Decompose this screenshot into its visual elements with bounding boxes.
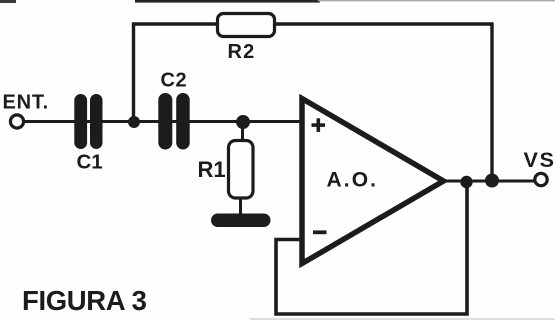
svg-text:R2: R2	[228, 41, 256, 63]
svg-text:A.O.: A.O.	[327, 169, 379, 192]
svg-text:FIGURA 3: FIGURA 3	[22, 285, 147, 316]
svg-text:ENT.: ENT.	[3, 92, 50, 114]
svg-text:C1: C1	[77, 151, 103, 174]
svg-text:C2: C2	[161, 70, 188, 92]
svg-text:VS: VS	[524, 148, 555, 172]
svg-text:R1: R1	[198, 157, 226, 182]
